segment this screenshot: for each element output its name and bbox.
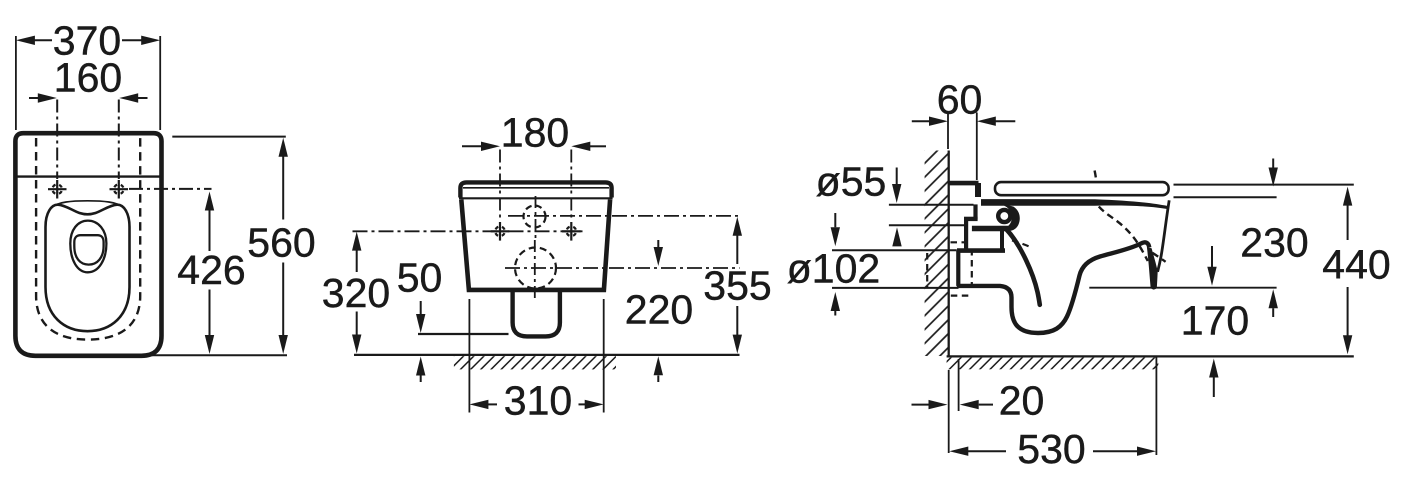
wall hatching bbox=[925, 151, 949, 357]
hinge pin bbox=[998, 210, 1010, 222]
hidden bowl interior (dashed) bbox=[1095, 171, 1097, 182]
svg-text:426: 426 bbox=[177, 247, 245, 293]
dim 320 bbox=[356, 248, 358, 272]
svg-text:355: 355 bbox=[703, 263, 771, 309]
svg-text:160: 160 bbox=[54, 55, 122, 101]
svg-text:310: 310 bbox=[504, 378, 572, 424]
dim 370 extension lines bbox=[15, 36, 17, 130]
dim 50 arrows bbox=[420, 301, 422, 314]
svg-text:230: 230 bbox=[1240, 220, 1308, 266]
front rim wedge bbox=[1147, 247, 1158, 289]
floor hatching bbox=[454, 356, 616, 369]
dim 20/530 extension lines bbox=[948, 370, 950, 453]
dim 170 arrows bbox=[1211, 246, 1213, 267]
svg-text:440: 440 bbox=[1322, 242, 1390, 288]
dim 220 arrows bbox=[657, 240, 659, 247]
dim 180 arrows bbox=[462, 145, 482, 147]
centre line to 426 datum bbox=[129, 188, 212, 190]
dim 180 extension lines bbox=[499, 150, 501, 222]
fixing hole marker right bbox=[110, 180, 129, 199]
o102 extension lines bbox=[832, 249, 957, 251]
bowl opening bbox=[70, 221, 106, 273]
svg-text:320: 320 bbox=[322, 270, 390, 316]
fixing holes centre line bbox=[353, 230, 584, 232]
dim 530 line and arrows bbox=[966, 450, 1006, 452]
wall face line bbox=[948, 151, 950, 357]
outlet circle o102 (dash) bbox=[515, 248, 556, 289]
bottom extension line bbox=[152, 354, 287, 356]
floor hatching bbox=[947, 358, 1159, 370]
pan body (rear view) bbox=[461, 200, 610, 290]
svg-text:ø102: ø102 bbox=[787, 246, 880, 292]
bowl underside and trap bbox=[957, 242, 1150, 333]
fixing bracket plate bbox=[949, 181, 979, 186]
svg-text:530: 530 bbox=[1017, 426, 1085, 472]
svg-text:560: 560 bbox=[247, 220, 315, 266]
dim 60 arrows bbox=[912, 120, 930, 122]
o102 arrows bbox=[834, 213, 836, 227]
water surface bbox=[74, 235, 103, 264]
seat strip (rear view) bbox=[460, 182, 611, 197]
dim 355 bbox=[736, 233, 738, 264]
dim 560 line and arrows bbox=[282, 154, 284, 220]
dim 60 extension lines bbox=[947, 113, 949, 150]
hinge arm bbox=[1004, 205, 1020, 231]
svg-text:170: 170 bbox=[1181, 298, 1249, 344]
floor line bbox=[947, 355, 1354, 357]
inlet centre lines bbox=[508, 215, 741, 217]
svg-text:50: 50 bbox=[397, 255, 443, 301]
dim 310 line and arrows bbox=[486, 403, 497, 405]
o55 extension lines bbox=[889, 204, 974, 206]
dim 426 line and arrows bbox=[209, 208, 211, 251]
hidden outlet pipe (dashed) bbox=[926, 253, 928, 287]
dim 20 arrows bbox=[912, 404, 931, 406]
svg-text:180: 180 bbox=[501, 110, 569, 156]
fixing hole marker left bbox=[491, 222, 510, 241]
pan body outline (top view) bbox=[15, 133, 161, 356]
cistern edge line bbox=[14, 175, 162, 177]
seat hidden outline (dashed) bbox=[36, 138, 140, 340]
fixing hole marker right bbox=[562, 222, 581, 241]
top extension line bbox=[172, 136, 285, 138]
svg-text:220: 220 bbox=[625, 287, 693, 333]
right extension lines bbox=[1174, 184, 1354, 186]
svg-text:60: 60 bbox=[937, 77, 983, 123]
floor line bbox=[354, 354, 740, 356]
hidden trap line (dashed) bbox=[1012, 241, 1032, 248]
dim 370 line and arrows bbox=[33, 39, 52, 41]
o55 arrows bbox=[896, 168, 898, 185]
seat top thin arc bbox=[52, 201, 124, 208]
dim 440 bbox=[1347, 202, 1349, 240]
hole centre lines (vertical dash-dot) bbox=[56, 100, 58, 180]
dim 160 arrows (outside) bbox=[29, 97, 39, 99]
seat edge band bbox=[981, 199, 1167, 209]
bowl front edge bbox=[1158, 200, 1170, 271]
seat and lid (side) bbox=[995, 182, 1169, 195]
outlet spigot bbox=[513, 290, 560, 336]
ceramic back steps bbox=[973, 204, 977, 219]
dim 230 arrows bbox=[1272, 159, 1274, 169]
svg-text:ø55: ø55 bbox=[816, 159, 887, 205]
dim 50 reference line bbox=[418, 333, 509, 335]
fixing hole marker left bbox=[48, 180, 67, 199]
svg-text:20: 20 bbox=[999, 378, 1045, 424]
water level line bbox=[1089, 287, 1276, 289]
seat rim outline bbox=[46, 205, 130, 332]
dim 310 extension lines bbox=[468, 299, 470, 413]
water inlet circle (dash) bbox=[524, 206, 546, 228]
outlet weir (open curve) bbox=[1007, 230, 1040, 305]
